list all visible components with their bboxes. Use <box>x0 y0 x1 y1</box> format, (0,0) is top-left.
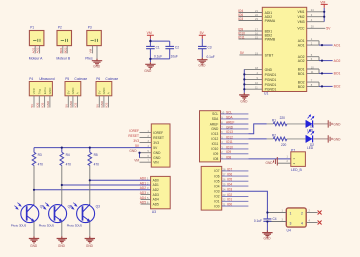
svg-text:BO2: BO2 <box>63 47 67 53</box>
ground (D2, sideways) <box>328 135 332 142</box>
svg-text:0.1uF: 0.1uF <box>254 219 262 223</box>
wire Q1 emitter to gnd <box>33 222 35 237</box>
svg-text:IO9: IO9 <box>226 150 231 154</box>
svg-text:Codeuse: Codeuse <box>105 77 118 81</box>
svg-text:Moteur B: Moteur B <box>56 56 70 60</box>
wire R5 down <box>89 166 91 205</box>
svg-text:GND: GND <box>129 149 137 153</box>
wire BO1 <box>307 69 319 73</box>
svg-text:GND: GND <box>102 87 106 95</box>
IC U1 motor driver <box>262 7 306 95</box>
wire VCC 5V <box>307 27 326 29</box>
svg-text:IO5: IO5 <box>214 180 219 184</box>
svg-text:Photo 3DU5: Photo 3DU5 <box>39 223 55 227</box>
svg-text:AD3: AD3 <box>153 193 159 197</box>
svg-text:C3: C3 <box>208 45 212 49</box>
svg-text:BO1: BO1 <box>59 47 63 53</box>
svg-text:SDA: SDA <box>212 117 219 121</box>
svg-text:IO3: IO3 <box>238 17 243 21</box>
wire IO13 to R1 <box>248 124 266 134</box>
wire R4 down <box>61 166 63 205</box>
svg-text:PGND1: PGND1 <box>265 83 277 87</box>
svg-text:PWMA: PWMA <box>265 19 276 23</box>
connector P6 Codeuse <box>95 77 118 107</box>
svg-text:AO2: AO2 <box>298 59 305 63</box>
svg-text:470: 470 <box>38 163 44 167</box>
wire AD1 bus <box>62 184 151 186</box>
ground (P3) <box>92 59 102 69</box>
svg-text:Trig: Trig <box>38 89 42 94</box>
resistor R4 <box>60 148 71 167</box>
svg-text:GND: GND <box>240 100 248 104</box>
capacitor C1 <box>146 45 162 59</box>
wire BO2 <box>307 82 319 86</box>
svg-text:AD5: AD5 <box>153 202 159 206</box>
wire U1 gnd bus <box>244 69 262 89</box>
svg-text:IO12: IO12 <box>226 135 233 139</box>
svg-text:AD3: AD3 <box>140 191 146 195</box>
wire U1 left input pins <box>239 13 263 55</box>
svg-text:BO1: BO1 <box>334 72 341 76</box>
power VM (C1/C2) <box>147 31 154 39</box>
svg-text:P6: P6 <box>96 77 100 81</box>
capacitor C2 <box>165 45 179 59</box>
wire AD0 bus <box>90 179 151 181</box>
svg-text:BO2: BO2 <box>298 85 305 89</box>
svg-text:AD4: AD4 <box>140 196 146 200</box>
svg-text:VM: VM <box>89 48 93 53</box>
svg-text:GND: GND <box>333 122 341 126</box>
svg-text:IO3: IO3 <box>214 190 219 194</box>
svg-text:3V3: 3V3 <box>133 139 139 143</box>
svg-text:R3: R3 <box>38 153 42 157</box>
svg-text:VM2: VM2 <box>298 15 305 19</box>
svg-text:RESET: RESET <box>153 136 164 140</box>
svg-text:SDA: SDA <box>226 115 233 119</box>
svg-text:VM3: VM3 <box>298 20 305 24</box>
svg-text:5V: 5V <box>200 31 205 35</box>
wire U4 pin3 <box>267 221 286 223</box>
svg-text:P3: P3 <box>88 25 92 29</box>
svg-text:BO1: BO1 <box>298 72 305 76</box>
svg-text:P2: P2 <box>58 25 62 29</box>
wire D1 to gnd <box>313 123 328 125</box>
svg-text:220: 220 <box>280 116 286 120</box>
ground (Q2) <box>57 236 67 247</box>
svg-text:AREF: AREF <box>210 122 219 126</box>
svg-text:IO6: IO6 <box>214 174 219 178</box>
node 5V bus dots <box>61 147 63 149</box>
svg-text:220: 220 <box>281 143 287 147</box>
svg-text:IO11: IO11 <box>238 35 245 39</box>
ground (C3) <box>197 58 207 68</box>
svg-text:P1: P1 <box>30 25 34 29</box>
svg-text:VCC: VCC <box>32 87 36 94</box>
svg-text:AO1: AO1 <box>298 44 305 48</box>
svg-text:5V: 5V <box>326 27 331 31</box>
svg-text:Echo: Echo <box>43 87 47 94</box>
wire U4 pin2 to nc <box>306 212 317 214</box>
svg-text:AO1: AO1 <box>334 43 341 47</box>
component U4 <box>286 208 306 233</box>
wire IO8 to P7 <box>248 158 290 160</box>
connector P2 <box>56 25 71 60</box>
connector P5 Codeuse <box>64 77 87 107</box>
LED D2 <box>306 130 315 150</box>
wire U4 pin1 <box>267 212 286 214</box>
svg-text:VCC: VCC <box>297 27 305 31</box>
svg-text:AO1: AO1 <box>31 47 35 53</box>
no-connect X pin2 <box>318 211 322 215</box>
svg-text:470: 470 <box>66 163 72 167</box>
svg-text:GND: GND <box>46 100 50 108</box>
svg-text:Q3: Q3 <box>96 205 100 209</box>
ground (Q1) <box>29 236 39 247</box>
svg-text:0.1uF: 0.1uF <box>207 55 215 59</box>
svg-text:IO7: IO7 <box>214 169 219 173</box>
wire caps bottom <box>150 59 169 62</box>
svg-text:IO0: IO0 <box>214 204 219 208</box>
svg-text:GND: GND <box>69 100 73 108</box>
svg-text:5V: 5V <box>95 104 99 108</box>
wire Q3 emitter to gnd <box>89 222 91 237</box>
svg-text:VIN: VIN <box>153 160 159 164</box>
svg-text:R4: R4 <box>66 153 70 157</box>
svg-text:IO2: IO2 <box>214 195 219 199</box>
svg-text:10uF: 10uF <box>171 55 178 59</box>
svg-text:GND: GND <box>93 65 101 69</box>
svg-text:BO1: BO1 <box>298 67 305 71</box>
svg-text:GND: GND <box>266 161 274 165</box>
svg-text:470: 470 <box>94 163 100 167</box>
svg-text:GND: GND <box>333 137 341 141</box>
svg-text:IO6: IO6 <box>35 102 39 107</box>
svg-text:AO2: AO2 <box>36 47 40 53</box>
ground (D1, sideways) <box>328 120 332 127</box>
svg-text:IO12: IO12 <box>211 137 218 141</box>
svg-text:IO9: IO9 <box>213 152 218 156</box>
svg-text:IO10: IO10 <box>211 147 218 151</box>
node junction dots C1 <box>149 40 151 42</box>
resistor R1 <box>267 116 306 126</box>
svg-text:RESET: RESET <box>128 134 139 138</box>
svg-text:GND: GND <box>264 237 272 241</box>
svg-text:GND: GND <box>198 64 206 68</box>
power VM (U1 right) <box>320 0 328 8</box>
svg-text:IO11: IO11 <box>226 140 233 144</box>
wire VM to caps <box>150 39 169 46</box>
svg-text:IOREF: IOREF <box>153 131 163 135</box>
svg-text:C4: C4 <box>273 217 277 221</box>
wire 5V bus to resistors <box>34 147 151 149</box>
svg-text:GND: GND <box>71 87 75 95</box>
wire AD2 bus <box>34 189 151 191</box>
svg-text:A: A <box>107 92 111 94</box>
svg-text:IO2: IO2 <box>74 102 78 107</box>
svg-text:AD1: AD1 <box>153 183 159 187</box>
svg-text:AD2: AD2 <box>153 188 159 192</box>
svg-text:IO5: IO5 <box>227 178 232 182</box>
svg-text:IO8: IO8 <box>213 157 218 161</box>
svg-text:IO11: IO11 <box>212 142 219 146</box>
capacitor C3 <box>198 39 215 59</box>
svg-text:AD4: AD4 <box>153 198 159 202</box>
svg-text:P5: P5 <box>65 77 69 81</box>
no-connect X pin4 <box>318 221 322 225</box>
svg-text:C1: C1 <box>156 45 160 49</box>
svg-text:P4: P4 <box>29 77 33 81</box>
connector P4 Ultrasound <box>29 77 55 107</box>
svg-text:AO2: AO2 <box>334 59 341 63</box>
connector U3 (AD0..AD5) <box>141 176 171 213</box>
transistor Q2 <box>39 203 72 228</box>
resistor R2 <box>267 133 306 146</box>
wire Q2 emitter to gnd <box>61 222 63 237</box>
svg-text:GND: GND <box>86 244 94 248</box>
svg-text:Moteur A: Moteur A <box>29 56 43 60</box>
svg-text:IO7: IO7 <box>227 167 232 171</box>
svg-text:IO4: IO4 <box>227 183 232 187</box>
svg-text:PGND1: PGND1 <box>265 87 277 91</box>
svg-text:R5: R5 <box>94 153 98 157</box>
svg-text:PGND1: PGND1 <box>265 73 277 77</box>
wire R3 down <box>33 166 35 205</box>
ground (P7, sideways left) <box>274 157 278 166</box>
transistor Q3 <box>67 203 100 228</box>
svg-text:GND: GND <box>211 127 219 131</box>
wire gnd tie <box>139 153 141 158</box>
svg-text:C2: C2 <box>175 45 179 49</box>
svg-text:GND: GND <box>153 151 161 155</box>
capacitor C4 <box>254 213 277 231</box>
transistor Q1 <box>11 203 44 228</box>
svg-text:LED: LED <box>307 146 314 150</box>
svg-text:IO4: IO4 <box>214 184 219 188</box>
svg-text:5V: 5V <box>66 91 70 95</box>
ground (C1/C2) <box>144 62 155 73</box>
svg-text:GND: GND <box>30 244 38 248</box>
svg-text:PGND1: PGND1 <box>265 78 277 82</box>
svg-text:5V: 5V <box>97 91 101 95</box>
svg-text:5V: 5V <box>64 104 68 108</box>
wire IO12 to R2 <box>248 138 266 140</box>
svg-text:GND: GND <box>226 125 234 129</box>
svg-text:Photo 3DU5: Photo 3DU5 <box>67 223 83 227</box>
svg-text:IO8: IO8 <box>226 155 231 159</box>
svg-text:VM1: VM1 <box>298 10 305 14</box>
LED D1 <box>306 115 315 133</box>
svg-text:Piles: Piles <box>85 56 93 60</box>
svg-text:IO2: IO2 <box>227 193 232 197</box>
wire VM pins <box>307 12 325 22</box>
svg-text:AD5: AD5 <box>140 201 146 205</box>
svg-text:IO1: IO1 <box>227 198 232 202</box>
wire D2 to gnd <box>313 138 328 140</box>
svg-text:Photo 3DU5: Photo 3DU5 <box>11 223 27 227</box>
connector power header (IOREF..VIN) <box>140 124 171 167</box>
wire AO1 <box>307 41 319 45</box>
connector P1 <box>29 25 44 60</box>
svg-text:IO6: IO6 <box>227 173 232 177</box>
svg-text:5V: 5V <box>30 104 34 108</box>
svg-text:Ultrasound: Ultrasound <box>39 77 55 81</box>
svg-text:IO1: IO1 <box>214 200 219 204</box>
svg-text:BO2: BO2 <box>334 85 341 89</box>
svg-text:A: A <box>76 92 80 94</box>
svg-text:IO10: IO10 <box>226 145 233 149</box>
svg-text:LED_B: LED_B <box>291 168 302 172</box>
connector header IO7..IO0 <box>201 166 248 210</box>
svg-text:AD0: AD0 <box>153 179 159 183</box>
svg-text:AREF: AREF <box>226 120 235 124</box>
svg-text:IO13: IO13 <box>211 132 218 136</box>
svg-text:3V3: 3V3 <box>153 141 159 145</box>
svg-text:Codeuse: Codeuse <box>74 77 87 81</box>
svg-text:IO0: IO0 <box>227 203 232 207</box>
resistor R5 <box>88 148 99 167</box>
svg-text:GND: GND <box>144 69 152 73</box>
svg-text:STBT: STBT <box>265 53 274 57</box>
svg-text:SCL: SCL <box>226 110 232 114</box>
svg-text:IO3: IO3 <box>105 102 109 107</box>
connector P7 LED_B <box>287 148 306 172</box>
svg-text:GND: GND <box>153 156 161 160</box>
svg-text:3: 3 <box>290 221 292 225</box>
wire AO2 <box>307 57 319 61</box>
connector header SCL..IO8 <box>200 110 249 162</box>
svg-text:GND: GND <box>48 87 52 95</box>
svg-text:U3: U3 <box>152 210 156 214</box>
svg-text:U4: U4 <box>287 229 291 233</box>
wire P7 pin2 to gnd <box>277 162 291 164</box>
svg-text:IO5: IO5 <box>41 102 45 107</box>
connector P3 <box>85 25 101 60</box>
svg-text:GND: GND <box>100 100 104 108</box>
svg-text:4: 4 <box>301 221 303 225</box>
ground (Q3) <box>85 236 95 247</box>
ground (U4) <box>262 231 272 241</box>
power 5V (C3) <box>199 31 206 39</box>
svg-text:IOREF: IOREF <box>129 129 139 133</box>
svg-text:VM: VM <box>134 159 139 163</box>
svg-text:GND: GND <box>265 68 273 72</box>
wire IO3 to U4 <box>222 191 268 212</box>
svg-text:U1: U1 <box>264 91 268 95</box>
resistor R3 <box>32 148 43 167</box>
svg-text:VM: VM <box>147 31 152 35</box>
ground (U1) <box>239 93 249 104</box>
wire U4 pin4 to nc <box>306 222 317 224</box>
svg-text:PWMB: PWMB <box>265 37 276 41</box>
svg-text:GND: GND <box>58 244 66 248</box>
svg-text:IO13: IO13 <box>226 130 233 134</box>
svg-text:2: 2 <box>301 211 303 215</box>
svg-text:0.1uF: 0.1uF <box>154 55 162 59</box>
svg-text:1: 1 <box>290 211 292 215</box>
svg-text:VM: VM <box>320 0 325 4</box>
svg-text:SCL: SCL <box>212 112 218 116</box>
